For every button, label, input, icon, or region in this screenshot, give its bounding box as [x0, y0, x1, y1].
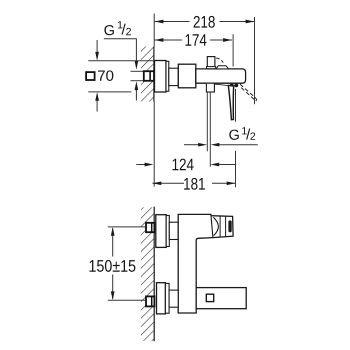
- 150 +/- 15 dimension: [90, 227, 136, 300]
- underside line to hinge: [215, 84, 230, 85]
- square-70 label: [86, 70, 113, 81]
- tick lines for G1/2 supply (pipe top/bottom): [131, 70, 144, 72]
- 150 dimension ticks: [108, 226, 146, 228]
- G 1/2 up arrow: [135, 81, 139, 100]
- lower wall nut: [146, 296, 154, 306]
- 70 dimension ticks: [88, 60, 153, 62]
- dimension 218: [155, 16, 255, 28]
- solid lever hanging down: [228, 85, 233, 119]
- lower connector tube: [169, 290, 178, 307]
- cartridge cap: [178, 64, 196, 88]
- G 1/2 leader + down arrow: [104, 39, 138, 70]
- lower arm (shower outlet block): [196, 288, 246, 309]
- upper escutcheon: [156, 215, 166, 248]
- dimension 181: [153, 178, 236, 190]
- dashed swing line (upper): [216, 58, 223, 63]
- upper wall nut: [146, 223, 154, 232]
- escutcheon lip: [166, 61, 169, 91]
- dashed lever (open position): [240, 84, 257, 101]
- extension line 181 (to lever): [235, 89, 237, 122]
- square detail on arm: [206, 294, 213, 301]
- supply pipe white band: [131, 72, 145, 81]
- escutcheon plate (side view): [155, 61, 167, 93]
- 70 down arrow: [95, 40, 99, 61]
- lower escutcheon: [157, 283, 166, 314]
- body column + spout (merged outline): [178, 214, 233, 313]
- dimension 124: [136, 159, 236, 171]
- G 1/2 label (top): [104, 21, 131, 35]
- G 1/2 bottom dimension arrows: [184, 143, 258, 147]
- wall hatching (top view): [141, 47, 154, 102]
- wall face line (front view): [153, 207, 155, 342]
- wall face line (top view): [153, 14, 155, 47]
- dimension 174: [155, 34, 232, 46]
- lever closed bump: [216, 66, 229, 69]
- 70 up arrow: [95, 92, 99, 112]
- outlet extension lines: [206, 92, 208, 151]
- supply stub in wall: [144, 71, 154, 81]
- spout cap vertical lines: [219, 216, 221, 237]
- G 1/2 label (bottom): [229, 127, 255, 140]
- upper connector tube: [169, 222, 178, 239]
- spout cap left edge: [211, 215, 213, 238]
- spout cap concave curve: [213, 217, 218, 235]
- aerator slot: [228, 220, 231, 232]
- wall hatching (front view): [141, 207, 154, 341]
- extension line 218: [254, 17, 256, 104]
- outlet stub below body: [206, 83, 214, 92]
- connector tube: [169, 68, 179, 85]
- top stub (diverter knob): [207, 57, 215, 68]
- extension line 174: [232, 34, 234, 66]
- hinge block: [230, 84, 234, 87]
- body bar: [196, 69, 246, 83]
